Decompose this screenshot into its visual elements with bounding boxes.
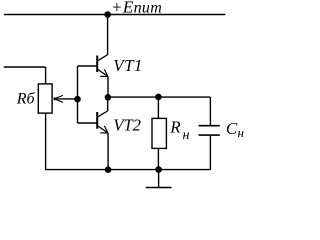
wire: R6 bottom lead: [45, 113, 47, 170]
wire: input wire from left edge: [4, 66, 46, 68]
base bar: [96, 112, 98, 129]
collector diagonal: [98, 55, 108, 61]
wire: Cн top lead: [209, 97, 211, 125]
wire: +E supply rail: [4, 14, 226, 16]
wire: base column vertical: [77, 66, 79, 123]
wire: output node horizontal: [108, 96, 210, 98]
emitter vertical: [107, 77, 109, 98]
svg-text:+Eпит: +Eпит: [111, 0, 162, 16]
wire: Rн top lead: [157, 97, 159, 118]
collector vertical to rail: [107, 15, 109, 55]
base wire: [78, 122, 98, 124]
base bar: [96, 56, 98, 73]
transistor VT1: [78, 15, 109, 98]
ground: [146, 170, 172, 188]
node: wiper junction dot: [74, 96, 81, 103]
node: VT1 emitter / VT2 collector junction dot: [105, 94, 112, 101]
wire: Rн bottom lead: [157, 148, 159, 170]
emitter diagonal: [98, 126, 108, 133]
wiper arrow of Rб: [53, 95, 77, 102]
svg-text:VT1: VT1: [113, 56, 143, 75]
emitter vertical: [107, 133, 109, 170]
svg-text:VT2: VT2: [113, 115, 141, 134]
emitter arrowhead: [100, 132, 108, 134]
wire: R6 top lead: [45, 67, 47, 84]
node: VT2 emitter / bottom rail dot: [105, 166, 112, 173]
node: supply junction dot: [104, 11, 111, 18]
emitter diagonal: [98, 69, 108, 76]
node: Rн top junction dot: [155, 94, 162, 101]
wire: bottom rail: [46, 169, 211, 171]
wire: Cн bottom lead: [209, 136, 211, 170]
transistor VT2: [78, 97, 109, 170]
svg-text:Rб: Rб: [16, 90, 36, 107]
resistor Rн: [152, 118, 166, 148]
resistor Rб (potentiometer body): [38, 84, 52, 113]
node: ground junction dot: [155, 166, 162, 173]
collector vertical to output node: [107, 97, 109, 111]
capacitor Cн: [199, 126, 220, 135]
collector diagonal: [98, 111, 108, 117]
emitter arrowhead: [100, 75, 108, 77]
base wire: [78, 65, 98, 67]
